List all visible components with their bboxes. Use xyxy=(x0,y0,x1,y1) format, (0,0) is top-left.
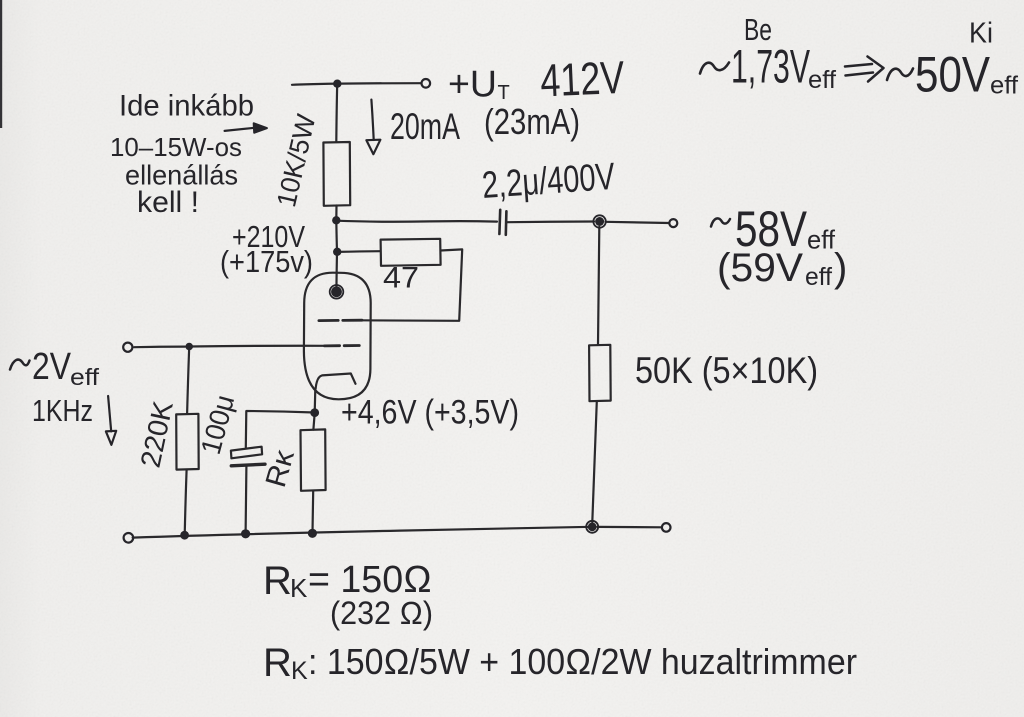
svg-text:10–15W-os: 10–15W-os xyxy=(110,132,242,162)
junction coupling node xyxy=(332,216,340,224)
wire node to 47 tap xyxy=(335,220,338,252)
wire cathode node to RK xyxy=(313,413,314,430)
terminal output top xyxy=(669,219,677,227)
arrow 1KHz xyxy=(108,396,111,431)
svg-text:R: R xyxy=(263,641,292,685)
tube grid1 dashes xyxy=(319,319,338,322)
junction ring out node xyxy=(593,215,605,227)
wire coupling node to capacitor xyxy=(336,221,497,222)
capacitor 100u minus plate xyxy=(231,464,265,466)
wire 47 loop right side xyxy=(357,249,463,320)
capacitor C 2,2u/400V plates xyxy=(498,210,501,234)
svg-text:(59V: (59V xyxy=(717,246,803,290)
svg-text:eff: eff xyxy=(990,72,1018,100)
svg-text:(+175v): (+175v) xyxy=(220,244,313,279)
junction bottom 100u xyxy=(241,529,250,538)
wire top rail xyxy=(292,83,421,85)
svg-text:47: 47 xyxy=(383,262,419,295)
capacitor 100u plus plate box xyxy=(231,447,262,459)
wire anode feed upper xyxy=(335,84,338,142)
svg-text:1KHz: 1KHz xyxy=(32,393,93,428)
svg-text:R: R xyxy=(263,559,292,603)
svg-text:eff: eff xyxy=(70,364,100,390)
svg-text:K: K xyxy=(291,657,308,685)
svg-text:1,73V: 1,73V xyxy=(731,40,810,93)
svg-text:+U: +U xyxy=(448,64,497,105)
svg-text:K: K xyxy=(290,573,308,603)
junction input node xyxy=(185,343,193,351)
tube envelope xyxy=(304,273,371,400)
svg-text:50V: 50V xyxy=(915,47,991,103)
svg-text:20mA: 20mA xyxy=(390,106,460,147)
wire 100u bottom lead xyxy=(245,467,248,533)
terminal bottom left xyxy=(124,533,134,543)
wire bottom node to terminal xyxy=(598,526,662,529)
svg-text:eff: eff xyxy=(807,225,836,255)
junction ring bottom out xyxy=(586,521,598,533)
wire 220K to bottom rail xyxy=(185,470,187,535)
anode dot ring xyxy=(330,285,344,299)
wire input node down to 220K xyxy=(187,347,189,414)
junction 47 tap xyxy=(333,248,341,256)
wire resistor to node xyxy=(335,206,337,221)
tube grid2 dashes xyxy=(324,344,339,347)
svg-text:eff: eff xyxy=(805,263,832,291)
label ~50Veff xyxy=(887,69,913,81)
svg-text:+4,6V (+3,5V): +4,6V (+3,5V) xyxy=(341,394,519,432)
tube cathode xyxy=(316,374,356,389)
junction out node xyxy=(595,217,604,226)
svg-text:): ) xyxy=(834,246,847,290)
svg-text:2V: 2V xyxy=(32,346,72,388)
resistor 47 box xyxy=(381,239,441,266)
terminal +Ut xyxy=(422,79,431,88)
wire cathode lead xyxy=(314,389,317,409)
wire cathode node to cap 100u xyxy=(247,411,315,413)
arrow note pointer xyxy=(225,128,255,131)
wire bottom rail xyxy=(133,527,592,538)
terminal input xyxy=(123,343,132,352)
wire capacitor to out node xyxy=(508,220,595,223)
wire input node to grid xyxy=(189,345,324,348)
svg-text:Ide inkább: Ide inkább xyxy=(119,90,254,123)
svg-text:(23mA): (23mA) xyxy=(484,101,580,142)
wire input terminal to node xyxy=(134,346,185,349)
scan edge artifact left xyxy=(0,0,2,128)
junction bottom RK xyxy=(308,529,317,538)
terminal bottom right xyxy=(662,523,671,532)
tube anode dot xyxy=(331,286,342,297)
svg-text:: 150Ω/5W + 100Ω/2W huzaltrimm: : 150Ω/5W + 100Ω/2W huzaltrimmer xyxy=(308,641,857,682)
arrow 20mA xyxy=(371,100,373,140)
resistor 10K/5W xyxy=(323,142,350,206)
junction top rail xyxy=(333,80,341,88)
label => xyxy=(845,57,884,82)
resistor 220K box xyxy=(176,414,199,470)
wire 47 tap to anode xyxy=(335,252,338,292)
wire 50K to bottom node xyxy=(592,401,597,522)
label ~58Veff xyxy=(711,218,730,226)
wire out node down to 50K xyxy=(598,227,599,345)
wire out node to terminal xyxy=(606,222,669,223)
junction bottom out xyxy=(588,522,597,531)
resistor 50K box xyxy=(589,345,611,401)
resistor RK box xyxy=(301,429,326,490)
junction bottom 220K xyxy=(180,531,189,540)
svg-text:(232 Ω): (232 Ω) xyxy=(330,595,433,631)
junction cathode node xyxy=(310,408,319,417)
label ~2Veff xyxy=(10,360,30,370)
svg-text:kell !: kell ! xyxy=(137,186,199,219)
svg-text:Ki: Ki xyxy=(969,18,993,50)
svg-text:412V: 412V xyxy=(539,51,625,107)
wire 47 loop from tap xyxy=(338,250,381,253)
svg-text:50K (5×10K): 50K (5×10K) xyxy=(635,350,818,391)
svg-text:eff: eff xyxy=(808,66,836,94)
wire 100u top lead xyxy=(245,411,248,447)
wire RK to bottom rail xyxy=(311,491,314,533)
label ~1,73Veff xyxy=(700,63,729,74)
